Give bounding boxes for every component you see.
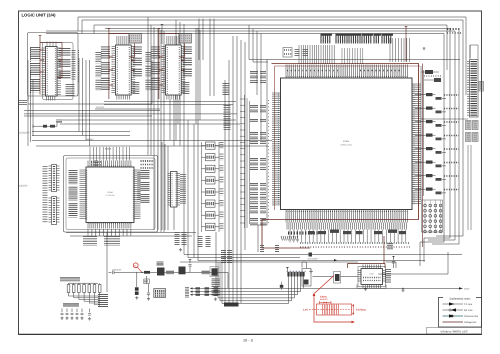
svg-text:Common line: Common line — [464, 315, 479, 318]
transistor cluster top right of IC606 — [425, 70, 433, 74]
legend row RX line — [443, 309, 464, 311]
IC606 bottom inductor row — [288, 231, 318, 234]
capacitor C605 — [147, 285, 150, 297]
legend row voltage line — [443, 321, 464, 323]
small ladder block 4 — [473, 133, 479, 142]
parts R603 — [202, 271, 210, 275]
resistor R604 — [144, 279, 150, 284]
svg-text:LC75854W: LC75854W — [106, 194, 115, 197]
wire top bus 2 — [82, 20, 463, 236]
VCC rail IC602 — [108, 29, 111, 31]
ground below IC607 — [364, 288, 367, 291]
wire vertical 2 — [215, 232, 217, 296]
wire A bottom bus — [28, 60, 152, 104]
svg-text:Voltage line: Voltage line — [464, 321, 477, 324]
red waveform axes — [314, 296, 352, 322]
bottom-left resistor top bus — [69, 282, 99, 284]
IC604 right pins — [134, 170, 141, 219]
wire mid vertical pack — [176, 20, 200, 255]
IC603 right pins — [181, 47, 185, 93]
parts column right of block — [212, 279, 220, 297]
IC602 red pin marks — [112, 48, 114, 90]
wire T601 to IC607 — [313, 276, 358, 278]
IC605 bottom stub — [173, 207, 175, 230]
red waveform centerline — [309, 309, 352, 311]
small ladder block 1 — [466, 121, 472, 130]
resistor R601 — [144, 271, 150, 274]
CN603 pin wires — [467, 62, 470, 116]
wire fan bottom staircase — [218, 277, 459, 304]
svg-text:LC895xx-DVD: LC895xx-DVD — [340, 144, 353, 147]
wire right bus 8 — [469, 45, 471, 58]
voltage wire A maroon — [40, 38, 62, 95]
svg-text:TX Line: TX Line — [464, 303, 473, 306]
IC602 left outer column — [95, 52, 101, 63]
left fringe components of IC606 — [250, 71, 258, 75]
page frame bottom emphasis — [19, 333, 482, 335]
group A inner box — [43, 43, 74, 100]
voltage loop maroon inner — [275, 66, 421, 210]
red dimension arrow right — [352, 306, 354, 314]
IC601 inner pin numbers — [46, 48, 48, 95]
IC606 bottom parts dots — [300, 242, 410, 244]
IC605 small body right of IC604 — [171, 172, 178, 208]
IC606 body — [281, 78, 413, 210]
IC602 right components column — [133, 47, 142, 56]
IC602 bottom pins — [117, 95, 130, 100]
transistor rows right of IC606 — [426, 93, 433, 96]
wire top bus 4 — [105, 29, 450, 238]
IC603 red pin marks — [162, 48, 164, 90]
red burst lines — [322, 305, 324, 315]
label line out — [185, 287, 189, 298]
IC604 bottom riser wires — [88, 229, 131, 236]
IC601 left label column — [30, 47, 40, 60]
IC603 top riser pins — [167, 36, 179, 45]
parts at 385 245 — [387, 243, 393, 250]
wire long h 262 — [180, 261, 306, 263]
IC601 right components column — [59, 48, 71, 57]
IC604 below components cluster 1 — [83, 236, 97, 246]
IC602 left label column — [101, 47, 110, 60]
wire center vertical pack — [225, 36, 245, 303]
stub cap left — [280, 285, 284, 288]
wire verticals top mid pair — [199, 19, 214, 96]
wire ladder risers — [470, 45, 478, 59]
filter block FL601 — [154, 289, 166, 298]
transistor Q603 — [179, 267, 186, 275]
wire bus A to D — [28, 60, 33, 146]
IC607 right parts — [385, 269, 391, 283]
svg-text:(4/4)*: (4/4)* — [464, 288, 469, 291]
left fringe speck dots — [268, 100, 270, 225]
ground on wire 288 — [401, 289, 404, 292]
bottom-left cap labels — [63, 303, 79, 307]
wire center pack terminators — [224, 303, 239, 307]
VCC rail A — [39, 36, 42, 38]
wire bus right of IC604 box — [162, 142, 168, 230]
bottom-left cap pair right — [88, 309, 91, 316]
svg-text:Explanatory notes: Explanatory notes — [450, 297, 471, 300]
wire top bus 3 — [94, 25, 447, 70]
legend row common line — [443, 315, 464, 317]
IC602 inner pin numbers — [116, 47, 118, 94]
wire mic down — [137, 272, 228, 288]
middle ladder bus — [202, 142, 220, 232]
wire vertical from IC604 to bottom — [106, 232, 108, 292]
IC604 right labels 2 — [137, 172, 141, 200]
svg-text:IC604: IC604 — [107, 191, 113, 194]
VCC fan caps — [286, 268, 289, 270]
red highlight ring B-H — [133, 263, 138, 268]
IC604 below components cluster 2 — [104, 236, 120, 246]
IC606 right pin numbers — [413, 84, 415, 205]
IC603 left label column — [151, 47, 160, 60]
IC606 top pin numbers — [286, 76, 408, 78]
IC604 right label column — [141, 170, 150, 179]
IC606 bottom pin numbers — [286, 211, 408, 213]
pullup resistor rows above IC606 — [320, 34, 322, 44]
VCC rail IC603 — [158, 29, 161, 31]
IC601 red pin marks — [43, 50, 45, 92]
svg-text:0.6ms: 0.6ms — [320, 295, 327, 298]
capacitor C604 electrolytic — [135, 287, 139, 290]
small ladder block 2 — [473, 121, 479, 130]
bottom-left resistor row — [67, 285, 70, 293]
IC604 top components — [94, 161, 98, 167]
pin header CN602 lower — [52, 197, 57, 225]
IC601 top risers — [47, 42, 56, 47]
IC607 outline box — [358, 267, 386, 287]
IC607 bottom pins — [363, 285, 381, 289]
IC604 left pin numbers — [86, 170, 88, 220]
svg-text:14(2/2)*: 14(2/2)* — [19, 185, 28, 188]
ladder connector CN603 — [470, 60, 479, 118]
svg-text:(BURST): (BURST) — [320, 298, 328, 301]
IC606 top fringe caps — [287, 70, 340, 72]
black loop outside IC606 — [258, 60, 460, 253]
IC601 left junction dots — [30, 48, 32, 94]
IC604 outer box — [64, 156, 158, 233]
wire group bus h7 — [60, 119, 236, 121]
junction part on 254 line — [309, 253, 313, 257]
voltage wire maroon right top — [406, 29, 423, 248]
voltage loop maroon around IC606 — [262, 64, 419, 249]
CN602 left labels — [43, 166, 48, 223]
VCC T top mid — [161, 25, 164, 27]
resistor array RA above IC603 — [179, 34, 192, 44]
staircase wires — [69, 295, 100, 297]
IC607 right pins — [383, 271, 387, 282]
bottom-left resistor row labels — [60, 277, 80, 282]
wire nested returns right — [420, 242, 444, 266]
IC603 left outer column — [145, 52, 151, 63]
IC601 right outer dots — [78, 50, 80, 82]
tiny ladder at frame edge — [479, 82, 484, 92]
legend row TX line — [443, 303, 464, 305]
arrow head 288 — [459, 287, 463, 289]
bottom-left caps row — [61, 309, 64, 315]
svg-text:(4/4)*: (4/4)* — [180, 188, 185, 191]
IC606 bottom risers deep — [290, 230, 406, 243]
wire pack right of group A — [79, 58, 90, 146]
IC601 left pins — [42, 48, 46, 94]
svg-text:10 - 3: 10 - 3 — [243, 339, 253, 343]
voltage wire IC602 maroon — [109, 31, 129, 100]
IC604 top right parts — [141, 160, 155, 162]
IC604 left label column — [69, 170, 78, 184]
IC605 pin numbers — [171, 173, 173, 206]
IC603 right components column — [183, 47, 192, 56]
small ladder block 3 — [466, 133, 472, 142]
wire B bottom bus — [104, 102, 236, 105]
svg-text:RX Line: RX Line — [464, 309, 473, 312]
svg-text:LCD(2/2)*: LCD(2/2)* — [19, 131, 30, 134]
IC603 body — [165, 45, 181, 95]
refer to parts list box — [427, 328, 482, 334]
wire verticals into IC606 top right — [390, 38, 410, 62]
IC606 top pin fringe — [286, 65, 408, 79]
IC602 right lower parts — [132, 82, 139, 94]
wire riser fan left — [218, 262, 222, 304]
wire mic line — [118, 271, 228, 273]
wire top bus 6 — [46, 34, 444, 243]
svg-text:IC607: IC607 — [369, 273, 374, 276]
IC602 left pins — [111, 47, 115, 93]
wire top bus 5 — [46, 31, 455, 240]
transistor Q604 — [212, 268, 218, 275]
wire turns to IC606 loop — [249, 25, 268, 140]
wire risers into long h lines — [188, 28, 198, 261]
IC603 bottom pins — [167, 95, 180, 100]
svg-text:AD(4/4)*: AD(4/4)* — [96, 106, 105, 109]
wire left vertical pack — [148, 17, 164, 232]
IC605 right pins — [177, 174, 180, 206]
resistor cluster mid upper — [223, 83, 230, 96]
IC604 left pins — [80, 170, 87, 219]
wire bus under IC604 box — [66, 233, 196, 237]
svg-text:IC604: IC604 — [105, 148, 112, 151]
IC606 left pin numbers — [278, 93, 280, 205]
IC605 left pins — [168, 174, 171, 206]
IC606 bottom hatch row — [281, 236, 282, 241]
svg-text:IC606: IC606 — [343, 140, 350, 143]
IC604 body — [86, 167, 134, 223]
crystal X601 block — [283, 48, 292, 58]
red arrows span — [320, 301, 332, 304]
IC606 right pin fringe — [412, 84, 421, 204]
IC602 right pins — [131, 47, 135, 93]
wire verticals into IC606 top — [299, 45, 334, 64]
wire loop under IC607 — [357, 285, 386, 289]
capacitor C603 and VCC — [189, 260, 192, 262]
IC605 right labels — [180, 174, 186, 204]
IC602 body — [115, 45, 131, 95]
VCC and cap top right of IC607 — [392, 257, 395, 259]
IC601 right pins — [57, 48, 61, 94]
voltage wire maroon IC607 — [348, 236, 386, 268]
speaker jack J601 — [302, 269, 311, 287]
transistor T601 — [334, 272, 341, 284]
voltage wire IC603 maroon — [159, 31, 179, 100]
IC604 top left parts — [91, 161, 101, 163]
mic input capacitor — [109, 271, 119, 275]
resistor matrix grid block — [422, 200, 443, 232]
middle resistor ladder boxes — [206, 142, 216, 149]
wire right bus 7 — [458, 30, 460, 244]
wire bus triple under group A — [24, 111, 237, 116]
terminator block bottom-left — [98, 294, 108, 308]
IC606 bottom bus risers — [287, 223, 407, 230]
wire long h 257 — [188, 257, 300, 259]
capacitor row on risers — [287, 272, 289, 277]
wire h 274 — [378, 252, 448, 274]
parts R602 — [166, 271, 174, 275]
resistor array RA above IC602 — [129, 34, 142, 44]
IC606 bottom component blobs — [318, 231, 326, 234]
wire C risers — [170, 100, 178, 147]
IC604 right pin numbers — [132, 170, 134, 220]
IC607 body — [361, 269, 383, 285]
pullup parts top right corner — [447, 28, 461, 30]
transistor Q602 — [157, 268, 165, 276]
wire group bus h6 — [60, 123, 240, 125]
resistor column mid — [224, 105, 231, 130]
wire long h 260 — [198, 260, 425, 262]
IC604 top riser comb — [90, 147, 130, 161]
wire group bus h1 — [95, 108, 160, 110]
connector box outline CN601 — [28, 33, 79, 97]
parts above mic right — [175, 232, 180, 246]
IC603 right lower parts — [182, 82, 189, 94]
wire group bus h5 — [36, 145, 268, 147]
svg-text:CLK (4/4)*: CLK (4/4)* — [308, 258, 318, 261]
red pointer line — [315, 276, 335, 294]
resistor cluster mid lower — [221, 250, 226, 263]
IC601 body — [46, 47, 58, 97]
IC604 bottom pin numbers — [88, 223, 132, 225]
IC604 outer box inner — [66, 158, 155, 230]
IC602 top riser pins — [117, 36, 129, 45]
wire right column verticals — [421, 66, 424, 200]
VCC black T right — [423, 48, 426, 50]
capacitor row marks — [287, 270, 306, 272]
label stub A — [19, 100, 27, 105]
svg-text:1.2V: 1.2V — [303, 308, 308, 311]
svg-text:AB(4/4)*: AB(4/4)* — [86, 138, 94, 141]
IC606 left pin fringe — [272, 93, 281, 205]
bottom resistor pairs — [260, 245, 264, 253]
IC607 left pins — [358, 271, 362, 282]
svg-text:*) Refer to "PARTS LIST": *) Refer to "PARTS LIST" — [440, 330, 468, 333]
IC603 inner pin numbers — [166, 47, 168, 94]
wire long h 254 — [184, 254, 462, 256]
IC601 bottom pins — [47, 96, 55, 101]
line out rows — [193, 287, 236, 289]
IC603 left pins — [161, 47, 165, 93]
wire group bus h2 — [32, 131, 130, 133]
IC604 top pins — [88, 161, 131, 168]
svg-text:0.47Vp-p: 0.47Vp-p — [356, 308, 367, 311]
pin header CN602 upper — [52, 165, 57, 192]
IC607 top pins — [363, 265, 381, 269]
wire group bus h3 — [32, 135, 130, 137]
IC604 bottom pins — [88, 223, 131, 229]
wire group bus h4 — [32, 140, 272, 142]
VCC rail above IC606 — [405, 27, 408, 29]
IC607 top black wires — [302, 262, 396, 268]
caps beside crystal — [295, 49, 300, 57]
IC606 bottom pin fringe — [286, 210, 408, 223]
IC601 right lower parts — [66, 84, 75, 96]
IC604 top pin numbers — [88, 165, 132, 167]
legend box explanatory notes — [439, 298, 482, 328]
left fringe wires — [245, 95, 250, 228]
svg-text:LOGIC UNIT (3/4): LOGIC UNIT (3/4) — [22, 13, 57, 18]
red ring tail — [138, 267, 142, 272]
red waveform box — [317, 304, 352, 315]
wire top bus 1 — [78, 17, 466, 95]
left fringe row stubs — [240, 99, 245, 223]
chain circuit left mid — [33, 122, 62, 128]
